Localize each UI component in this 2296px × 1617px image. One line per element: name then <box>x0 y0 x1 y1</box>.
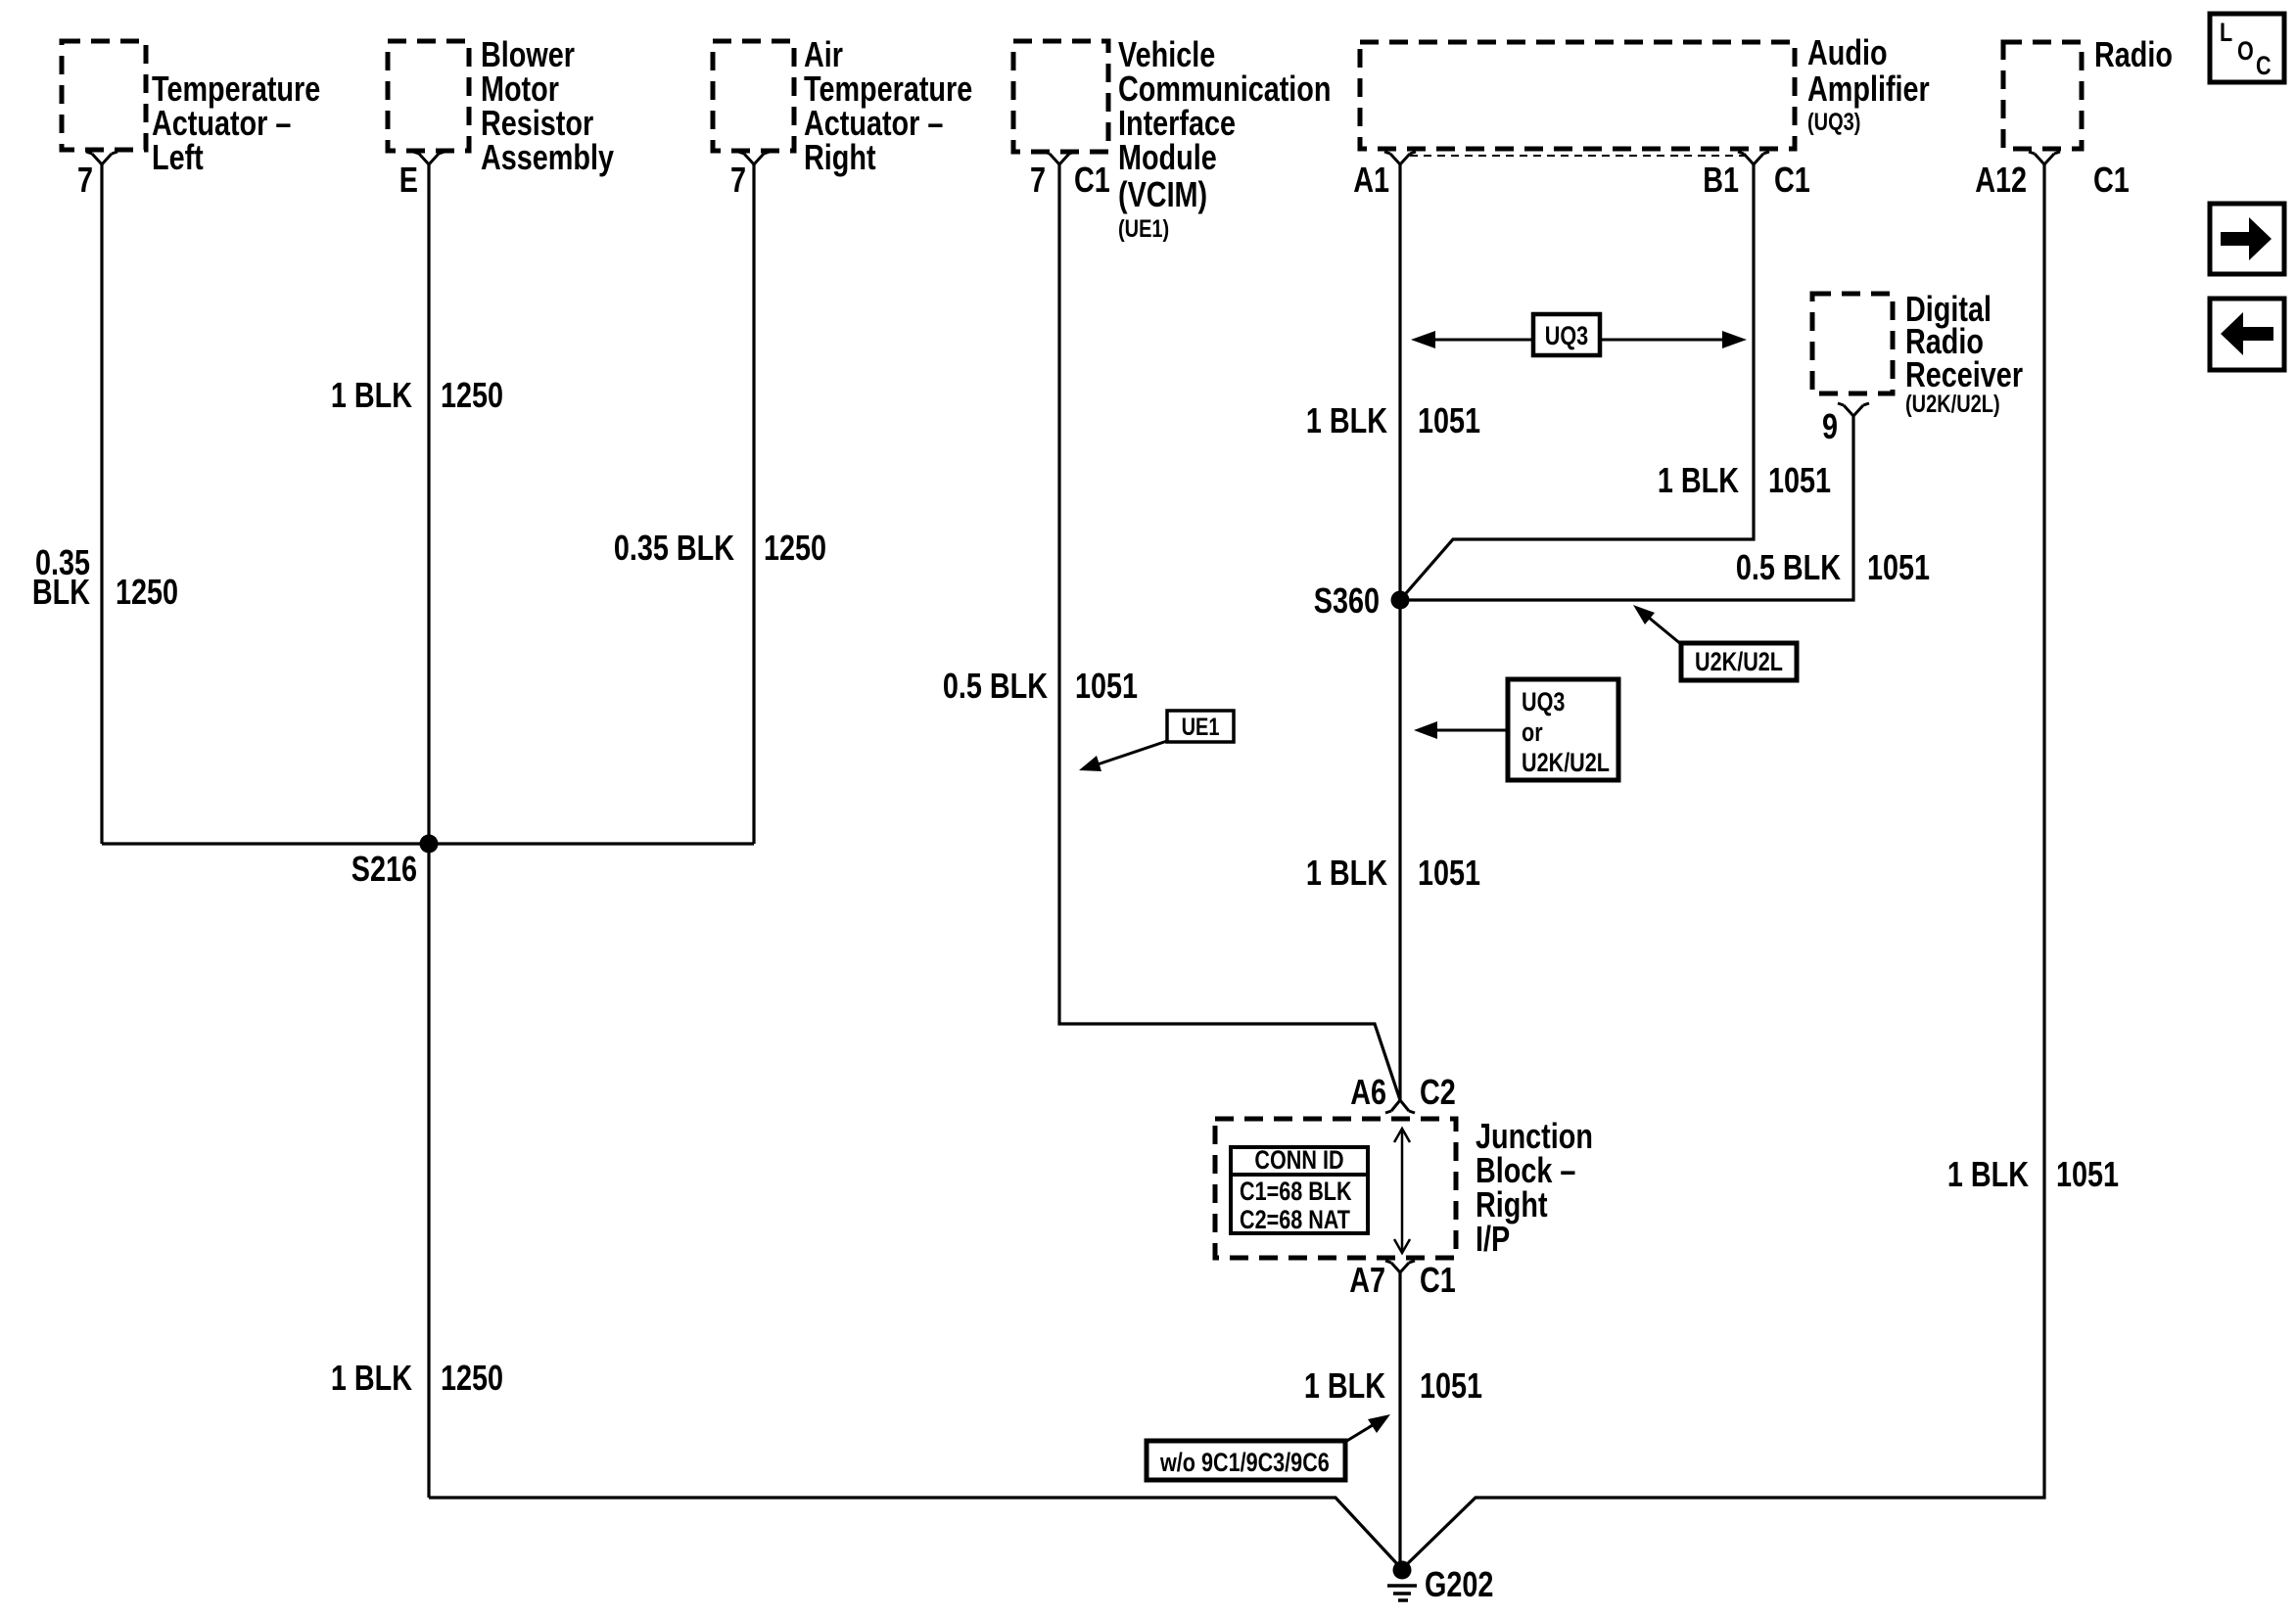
internal bus dashed line Audio Amplifier <box>1410 155 1745 157</box>
svg-text:C1: C1 <box>1420 1260 1456 1300</box>
svg-text:A12: A12 <box>1975 160 2027 200</box>
svg-text:O: O <box>2237 37 2254 67</box>
svg-text:G202: G202 <box>1425 1564 1493 1604</box>
connector box Blower Motor Resistor Assembly <box>388 41 469 151</box>
label Junction Block Right I/P <box>1476 1116 1593 1259</box>
svg-text:or: or <box>1522 718 1543 748</box>
svg-text:Module: Module <box>1118 137 1217 177</box>
svg-text:0.5 BLK: 0.5 BLK <box>943 666 1049 706</box>
wire label 1 BLK 1051 ground wire <box>1304 1365 1482 1406</box>
connector Y A7 C1 <box>1385 1261 1415 1272</box>
svg-text:C: C <box>2256 52 2272 81</box>
svg-text:C1: C1 <box>1074 160 1110 200</box>
UQ3 option double arrow <box>1411 314 1747 355</box>
svg-text:1250: 1250 <box>764 528 826 568</box>
wire digital radio receiver pin 9 to S360 <box>1400 416 1853 600</box>
wire temperature actuator to S216 bus <box>100 164 103 844</box>
svg-text:S360: S360 <box>1314 580 1380 621</box>
svg-text:1 BLK: 1 BLK <box>331 375 413 415</box>
svg-text:9: 9 <box>1822 406 1838 446</box>
svg-text:0.5 BLK: 0.5 BLK <box>1736 547 1842 587</box>
label Vehicle Communication Interface Module (VCIM) (UE1) <box>1118 34 1331 243</box>
connector box Air Temperature Actuator Right <box>713 41 794 151</box>
connector Y pin 9 <box>1838 403 1869 416</box>
label Audio Amplifier (UQ3) <box>1807 32 1930 136</box>
LOC legend box <box>2210 14 2284 82</box>
svg-text:1250: 1250 <box>441 375 503 415</box>
connector box Audio Amplifier <box>1360 42 1795 149</box>
junction block dashed box <box>1215 1119 1456 1258</box>
svg-text:C2: C2 <box>1420 1072 1456 1112</box>
svg-text:1250: 1250 <box>116 572 178 612</box>
connector Y A6 C2 <box>1385 1100 1415 1113</box>
connector Y pin B1 C1 <box>1738 152 1769 164</box>
ground splice dot <box>1393 1561 1412 1580</box>
label Digital Radio Receiver (U2K/U2L) <box>1905 289 2023 418</box>
wire label 0.35 BLK 1250 <box>32 542 178 612</box>
wire audio amp A1 down to junction block <box>1398 164 1401 1100</box>
svg-text:L: L <box>2220 19 2232 48</box>
svg-text:A1: A1 <box>1353 160 1389 200</box>
svg-text:C1=68 BLK: C1=68 BLK <box>1240 1178 1352 1207</box>
svg-text:U2K/U2L: U2K/U2L <box>1695 648 1783 677</box>
wire label 0.35 BLK 1250 right <box>614 528 826 568</box>
wire label 1 BLK 1051 A1 lower <box>1306 853 1480 893</box>
connector Y pin A1 <box>1384 152 1416 164</box>
svg-text:1 BLK: 1 BLK <box>1304 1365 1386 1406</box>
svg-text:(UE1): (UE1) <box>1118 215 1169 243</box>
svg-text:1 BLK: 1 BLK <box>1947 1154 2030 1194</box>
svg-text:C1: C1 <box>2093 160 2130 200</box>
wire junction block A7 down to ground G202 <box>1398 1272 1401 1568</box>
wire label 1 BLK 1051 radio <box>1947 1154 2119 1194</box>
svg-text:I/P: I/P <box>1476 1219 1510 1259</box>
wire radio A12 down to ground <box>1403 164 2044 1568</box>
svg-text:BLK: BLK <box>32 572 91 612</box>
wire audio amp B1 over to S360 <box>1400 164 1754 600</box>
junction block internal through wire with arrows <box>1394 1129 1410 1253</box>
svg-text:UQ3: UQ3 <box>1522 688 1565 717</box>
connector box Digital Radio Receiver <box>1812 294 1893 393</box>
callout w/o 9C1/9C3/9C6 <box>1147 1414 1390 1480</box>
svg-text:w/o 9C1/9C3/9C6: w/o 9C1/9C3/9C6 <box>1159 1449 1330 1478</box>
label Air Temperature Actuator Right <box>804 34 972 177</box>
svg-text:Left: Left <box>152 137 204 177</box>
connector Y pin 7 air <box>738 152 770 164</box>
svg-text:1 BLK: 1 BLK <box>331 1358 413 1398</box>
connector Y pin 7 C1 VCIM <box>1044 152 1075 164</box>
svg-text:1051: 1051 <box>1075 666 1138 706</box>
svg-text:U2K/U2L: U2K/U2L <box>1522 749 1610 778</box>
connector Y pin E <box>413 152 445 164</box>
svg-text:Right: Right <box>804 137 876 177</box>
callout UQ3 or U2K/U2L <box>1414 679 1618 780</box>
svg-text:7: 7 <box>730 160 746 200</box>
svg-text:0.35 BLK: 0.35 BLK <box>614 528 735 568</box>
svg-text:1 BLK: 1 BLK <box>1658 460 1740 500</box>
svg-text:7: 7 <box>77 160 93 200</box>
callout UE1 <box>1079 711 1234 771</box>
svg-text:CONN ID: CONN ID <box>1254 1146 1343 1176</box>
wire label 0.5 BLK 1051 VCIM <box>943 666 1138 706</box>
svg-text:1051: 1051 <box>1420 1365 1482 1406</box>
svg-text:1051: 1051 <box>1867 547 1930 587</box>
svg-text:1 BLK: 1 BLK <box>1306 853 1388 893</box>
svg-text:C1: C1 <box>1774 160 1810 200</box>
CONN ID table <box>1231 1146 1368 1235</box>
wire blower E down through S216 <box>427 164 430 1498</box>
svg-text:(UQ3): (UQ3) <box>1807 109 1860 136</box>
svg-text:Audio: Audio <box>1807 32 1888 72</box>
svg-text:1250: 1250 <box>441 1358 503 1398</box>
svg-text:S216: S216 <box>351 849 417 889</box>
wire S216 leg to ground <box>429 1498 1399 1566</box>
wire label 0.5 BLK 1051 receiver <box>1736 547 1930 587</box>
svg-text:1051: 1051 <box>1418 853 1480 893</box>
svg-text:Radio: Radio <box>2094 34 2173 74</box>
label Blower Motor Resistor Assembly <box>481 34 614 177</box>
legend right arrow box <box>2210 204 2284 274</box>
svg-text:(U2K/U2L): (U2K/U2L) <box>1905 391 2000 418</box>
svg-text:Receiver: Receiver <box>1905 354 2023 394</box>
wire label 1 BLK 1250 bottom <box>331 1358 503 1398</box>
svg-text:1051: 1051 <box>1768 460 1831 500</box>
svg-text:C2=68 NAT: C2=68 NAT <box>1240 1206 1350 1235</box>
wire label 1 BLK 1051 B1 <box>1658 460 1831 500</box>
svg-text:B1: B1 <box>1703 160 1739 200</box>
connector box VCIM <box>1013 41 1108 152</box>
legend left arrow box <box>2210 299 2284 370</box>
splice S360 <box>1391 591 1410 610</box>
label Temperature Actuator Left <box>152 69 320 177</box>
svg-text:A6: A6 <box>1350 1072 1386 1112</box>
wire VCIM C1 pin7 down and over to junction block A6 <box>1059 164 1400 1100</box>
svg-text:E: E <box>399 160 418 200</box>
svg-text:7: 7 <box>1030 160 1046 200</box>
wire label 1 BLK 1250 top <box>331 375 503 415</box>
connector box Radio <box>2003 42 2082 149</box>
wire air temperature actuator down <box>752 164 755 844</box>
svg-text:UE1: UE1 <box>1182 714 1220 741</box>
svg-text:(VCIM): (VCIM) <box>1118 174 1207 214</box>
svg-text:Assembly: Assembly <box>481 137 614 177</box>
wire label 1 BLK 1051 A1 upper <box>1306 400 1480 440</box>
ground symbol G202 <box>1387 1586 1417 1600</box>
svg-text:Amplifier: Amplifier <box>1807 69 1930 109</box>
svg-text:1 BLK: 1 BLK <box>1306 400 1388 440</box>
svg-text:1051: 1051 <box>1418 400 1480 440</box>
connector box Temperature Actuator Left <box>62 41 146 150</box>
callout U2K/U2L <box>1633 605 1797 680</box>
svg-text:1051: 1051 <box>2056 1154 2119 1194</box>
connector Y pin A12 C1 <box>2029 152 2060 164</box>
svg-text:UQ3: UQ3 <box>1545 322 1588 351</box>
wire S216 bus horizontal <box>102 842 754 845</box>
connector Y pin 7 <box>86 152 117 164</box>
svg-text:A7: A7 <box>1349 1260 1385 1300</box>
splice S216 <box>420 835 439 854</box>
